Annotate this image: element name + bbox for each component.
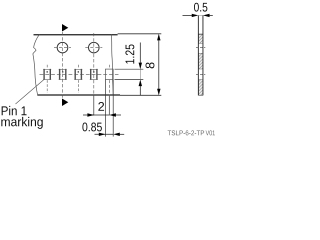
tape bottom edge [38, 94, 121, 96]
pocket 5 right edge extension line [112, 80, 114, 137]
tape bottom edge extension line to 8-dim [120, 94, 161, 96]
pocket 2 [59, 69, 67, 80]
pocket 5 left edge extension line [104, 80, 106, 137]
side view pocket centerline dash [196, 74, 205, 76]
left break (torn edge) line [33, 34, 40, 96]
dimension 8 (tape width) [157, 34, 160, 96]
side view sprocket hole centerline dash [196, 47, 205, 49]
side view bottom boundary [198, 94, 203, 96]
tape top edge [34, 34, 118, 36]
dimension text 1.25 (rotated) [125, 44, 134, 63]
side view right edge / extension [202, 15, 204, 95]
pocket 3 [74, 65, 82, 93]
dimension 1.25 (pocket length) extension lines [115, 69, 144, 79]
dimension text 0.85 [82, 123, 101, 132]
right break (cut edge) line [111, 34, 113, 95]
dimension 0.5 (tape thickness) [183, 14, 213, 17]
dimension 2 (pocket pitch) [83, 113, 121, 116]
side view top boundary [198, 33, 203, 35]
side view left edge / extension [197, 15, 199, 95]
dimension text 0.5 [194, 3, 207, 12]
sprocket centerline vertical (circle 2, pocket 4, to 2-dim) [93, 33, 95, 96]
label marking [1, 117, 42, 129]
dimension 0.85 (pocket width) [95, 133, 125, 136]
dimension text 2 [98, 102, 104, 111]
side view hatched block 2 [199, 53, 203, 69]
footer drawing title TSLP-6-2-TP [168, 130, 205, 135]
pocket 4 [90, 69, 98, 80]
top feed direction triangle [62, 24, 68, 32]
dimension text 8 (rotated) [146, 62, 155, 68]
pin 1 marking leader line [16, 80, 45, 105]
pocket row horizontal centerline [40, 73, 119, 75]
sprocket centerline vertical (circle 1, pocket 2, triangles) [62, 32, 64, 98]
side view hatched block 1 [199, 34, 203, 43]
sprocket hole 1 [54, 42, 71, 53]
dimension 1.25 line and arrows [139, 43, 142, 96]
bottom feed direction triangle [62, 99, 68, 107]
tape top edge extension line to 8-dim [118, 33, 162, 35]
pocket 5 [105, 65, 113, 116]
label Pin 1 [2, 106, 27, 115]
side view hatched block 3 [199, 80, 203, 96]
sprocket hole 2 [85, 42, 102, 53]
footer drawing revision V01 [206, 130, 215, 135]
pocket 1 [43, 65, 51, 93]
